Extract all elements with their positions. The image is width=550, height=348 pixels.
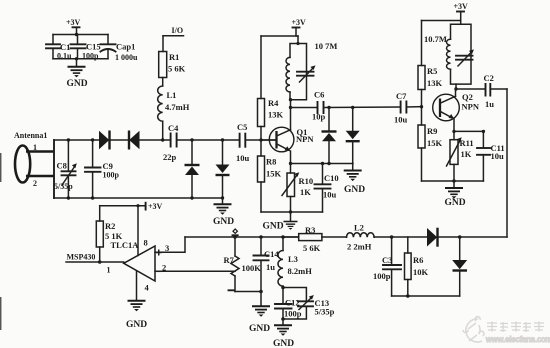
capacitor C15: [71, 35, 101, 61]
svg-text:R1: R1: [169, 52, 179, 62]
node C11 top: [482, 130, 485, 133]
wire collector to C2: [456, 88, 485, 90]
antenna Antenna1: [14, 131, 54, 188]
resistor R3: [283, 225, 322, 253]
wire bottom-right rail: [392, 295, 460, 297]
ground (RF bottom rail): [213, 198, 234, 227]
svg-text:1 000u: 1 000u: [115, 53, 138, 62]
svg-text:R10: R10: [299, 176, 314, 186]
wire +3V rail (Q2 stage): [422, 20, 461, 22]
wire R2 to output node: [99, 247, 101, 262]
svg-text:0.1u: 0.1u: [57, 52, 72, 61]
capacitor C9: [85, 138, 120, 199]
wire +3V rail (Q1 stage): [261, 35, 298, 37]
capacitor C8 (variable 5/35p): [54, 138, 77, 199]
wire R4 column top: [260, 36, 262, 99]
wire Q1 emitter column: [290, 151, 292, 173]
wire R1 to L1: [162, 78, 164, 87]
capacitor C5: [236, 122, 250, 163]
power +3V (cap bank): [66, 18, 81, 35]
op-amp U1 TLC1A: [111, 238, 170, 293]
resistor R7 (100K pot): [224, 237, 262, 292]
svg-text:Cap1: Cap1: [116, 42, 135, 52]
svg-text:R9: R9: [427, 126, 437, 136]
svg-text:C9: C9: [103, 161, 113, 171]
svg-text:8: 8: [144, 238, 148, 248]
power +3V (op-amp): [146, 202, 163, 211]
wire antenna vertical: [53, 140, 55, 198]
svg-text:10p: 10p: [312, 112, 326, 122]
wire MSP430 output: [66, 261, 124, 263]
node main/D3: [190, 138, 193, 141]
capacitor C6: [312, 90, 326, 122]
wire R5 column top: [421, 21, 423, 66]
wire cap-bank bottom rail: [53, 58, 108, 60]
resistor R5: [418, 66, 443, 90]
svg-text:GND: GND: [249, 324, 270, 334]
svg-text:R6: R6: [413, 255, 423, 265]
svg-text:R4: R4: [268, 98, 279, 108]
node main/D4: [221, 138, 224, 141]
svg-text:GND: GND: [273, 339, 294, 348]
svg-text:1K: 1K: [461, 149, 472, 159]
label minus: [229, 289, 235, 291]
svg-text:NPN: NPN: [296, 134, 314, 144]
svg-text:GND: GND: [344, 185, 365, 195]
svg-text:13K: 13K: [268, 110, 284, 120]
svg-text:R5: R5: [427, 66, 437, 76]
wire RF bottom rail: [54, 197, 223, 199]
node C3 tap: [390, 235, 394, 239]
ground (op-amp): [126, 301, 147, 330]
svg-text:1u: 1u: [485, 99, 494, 109]
node D8 top: [458, 235, 462, 239]
transistor Q2: [433, 89, 480, 121]
diode D1 (series, pointing right): [99, 131, 110, 150]
capacitor C7: [394, 91, 408, 125]
node pin8 rail: [136, 204, 139, 207]
node cap-bank bottom: [75, 57, 78, 60]
diode D3 (limiter, cathode up): [185, 140, 200, 198]
svg-text:100p: 100p: [82, 52, 99, 61]
wire tank to collector node: [455, 84, 457, 89]
svg-text:10u: 10u: [236, 153, 250, 163]
svg-text:C6: C6: [314, 90, 324, 100]
resistor R6: [405, 237, 429, 296]
transistor Q1: [261, 127, 314, 152]
wire R7 bottom to C14 bottom: [235, 291, 261, 293]
svg-text:GND: GND: [445, 198, 466, 208]
svg-text:10.7M: 10.7M: [424, 34, 447, 44]
svg-text:+3V: +3V: [292, 18, 307, 27]
svg-text:2 2mH: 2 2mH: [347, 242, 372, 252]
svg-text:+3V: +3V: [66, 18, 81, 27]
svg-text:1K: 1K: [300, 187, 311, 197]
wire D1-D2: [110, 139, 129, 141]
svg-text:4.7mH: 4.7mH: [165, 102, 190, 112]
svg-text:R11: R11: [460, 138, 474, 148]
wire C6 to C7: [324, 106, 401, 109]
svg-text:5/35p: 5/35p: [54, 182, 73, 191]
svg-text:15K: 15K: [427, 138, 443, 148]
svg-text:GND: GND: [67, 79, 88, 89]
svg-text:15K: 15K: [266, 169, 282, 179]
filter 10.7M (Q2 tank): [424, 24, 474, 84]
svg-text:C14: C14: [264, 249, 279, 259]
svg-text:C15: C15: [86, 42, 101, 52]
wire R5 to base node: [421, 90, 423, 126]
node Q1 collector / tank: [289, 98, 292, 101]
node L3 tap: [281, 235, 285, 239]
svg-text:100p: 100p: [103, 171, 120, 180]
node base divider: [259, 138, 262, 141]
capacitor Cap1 (polarized): [101, 35, 139, 63]
wire RF top rail: [54, 139, 100, 141]
diode D5 (limiter, cathode up): [322, 108, 337, 164]
node L1/main: [161, 138, 164, 141]
svg-text:L2: L2: [354, 223, 364, 233]
node D3 bottom: [190, 196, 193, 199]
svg-text:1u: 1u: [266, 262, 275, 272]
svg-text:TLC1A: TLC1A: [111, 240, 140, 250]
wire C2 to right edge: [491, 88, 507, 90]
wire Q2 emitter column: [453, 119, 455, 140]
watermark logo: [463, 317, 484, 342]
svg-text:R3: R3: [305, 225, 315, 235]
terminal pin 6 mark: [233, 229, 238, 235]
svg-text:10K: 10K: [413, 267, 429, 277]
svg-text:10u: 10u: [394, 115, 408, 125]
wire L2 to D7: [374, 236, 427, 238]
svg-text:C4: C4: [168, 123, 179, 133]
node L3 bottom: [281, 286, 285, 290]
svg-text:L1: L1: [167, 90, 177, 100]
node C10 top: [321, 162, 324, 165]
svg-text:C1: C1: [60, 42, 70, 52]
wire R10 to bottom rail: [290, 197, 292, 213]
ground (limiter): [344, 171, 366, 196]
capacitor C2: [484, 73, 495, 109]
node D6 top: [351, 106, 354, 109]
svg-text:+3V: +3V: [148, 202, 163, 211]
wire C4 to C5: [177, 139, 239, 141]
svg-text:100p: 100p: [373, 271, 391, 281]
svg-text:8.2mH: 8.2mH: [288, 266, 313, 276]
wire pin 3: [155, 237, 185, 252]
diode D8 (shunt, cathode down): [452, 237, 467, 296]
watermark text: [485, 322, 550, 345]
ground (C12/C13): [273, 319, 294, 348]
wire op-amp +3V rail: [100, 205, 146, 207]
resistor R11 (variable): [447, 137, 474, 166]
wire cap-bank top rail: [53, 34, 108, 36]
svg-text:L3: L3: [288, 254, 298, 264]
wire pin 8: [137, 206, 139, 256]
capacitor C14: [254, 237, 280, 292]
wire R11 to rail: [453, 164, 455, 181]
resistor R9: [418, 125, 443, 148]
wire audio line: [185, 236, 299, 238]
svg-text:22p: 22p: [163, 152, 177, 162]
svg-text:1: 1: [107, 266, 111, 275]
node emitter: [452, 130, 455, 133]
wire base node to R8: [260, 140, 262, 156]
node Q2 collector: [454, 87, 457, 90]
node output: [98, 260, 102, 264]
ground (Q2 stage): [445, 181, 466, 208]
filter 10.7M (Q1 tank): [286, 36, 337, 100]
node C14 tap: [259, 235, 263, 239]
terminal I/O: [163, 26, 184, 52]
node D4 bottom: [221, 196, 224, 199]
svg-text:MSP430: MSP430: [67, 253, 96, 262]
svg-text:3: 3: [165, 243, 169, 253]
svg-text:13K: 13K: [427, 78, 443, 88]
svg-text:100K: 100K: [242, 263, 262, 273]
wire D2 to C4: [140, 139, 171, 141]
svg-text:10u: 10u: [323, 190, 337, 200]
svg-text:+3V: +3V: [454, 2, 469, 11]
resistor R8: [258, 156, 282, 182]
svg-text:C3: C3: [382, 255, 392, 265]
resistor R10 (variable): [282, 172, 313, 197]
capacitor C1: [46, 35, 72, 61]
capacitor C3: [373, 237, 401, 296]
wire emitter to C11: [454, 130, 483, 132]
capacitor C10: [315, 164, 339, 213]
wire R3 to L2: [322, 236, 347, 238]
capacitor C11: [477, 131, 505, 181]
diode D7 (series, pointing right): [427, 228, 438, 247]
svg-text:GND: GND: [126, 320, 147, 330]
svg-text:10u: 10u: [491, 151, 505, 161]
svg-text:C5: C5: [237, 122, 247, 132]
power +3V (Q1 stage): [292, 18, 307, 36]
svg-text:Antenna1: Antenna1: [14, 131, 47, 140]
svg-text:10 7M: 10 7M: [315, 41, 338, 51]
wire L1 to main line: [162, 121, 164, 140]
svg-text:C8: C8: [57, 161, 67, 171]
svg-text:www.elecfans.com: www.elecfans.com: [485, 335, 550, 344]
ground (R7/C14): [249, 292, 270, 335]
node D5 bottom: [327, 162, 330, 165]
node Q2 base: [420, 105, 423, 108]
svg-text:1: 1: [33, 143, 37, 152]
capacitor C4: [163, 123, 179, 162]
wire R4 to base node: [260, 127, 262, 141]
wire C6 line: [291, 107, 318, 109]
wire C5 to Q1 base: [246, 139, 277, 141]
wire Q2 bottom rail: [422, 180, 484, 182]
wire D7 to right edge: [438, 236, 507, 238]
node C14 bottom: [259, 290, 263, 294]
wire pin 2: [155, 270, 235, 272]
wire R8 to bottom rail: [260, 182, 262, 212]
svg-text:R7: R7: [224, 255, 235, 265]
ground (cap bank): [67, 59, 88, 89]
wire right vertical: [506, 89, 508, 237]
svg-text:I/O: I/O: [172, 26, 184, 35]
svg-text:R2: R2: [105, 221, 115, 231]
node Q2 gnd: [452, 179, 455, 182]
node R7 tap: [233, 235, 237, 239]
wire C7 to Q2 base node: [407, 106, 422, 108]
node bottom rail gnd: [289, 210, 292, 213]
capacitor C13 (variable 5/35p): [298, 295, 335, 317]
wire R9 to bottom rail: [421, 148, 423, 181]
resistor R4: [258, 98, 284, 127]
inductor L3: [278, 237, 312, 288]
node cap-bank top: [75, 33, 78, 36]
power +3V (Q2 stage): [454, 2, 469, 24]
svg-text:GND: GND: [213, 217, 234, 227]
svg-text:5/35p: 5/35p: [315, 307, 335, 317]
svg-text:5 6K: 5 6K: [168, 64, 186, 74]
scan edge marks: [0, 153, 2, 330]
diode D2 (series, pointing left): [129, 131, 140, 150]
node emitter rail: [289, 162, 292, 165]
svg-text:C10: C10: [324, 173, 339, 183]
node R6 bottom: [406, 294, 410, 298]
wire pin 4: [136, 271, 138, 301]
svg-text:R8: R8: [266, 157, 276, 167]
inductor L2: [346, 223, 374, 252]
svg-text:2: 2: [33, 179, 37, 188]
diode D4 (limiter, cathode down): [216, 140, 230, 198]
resistor R1: [159, 52, 186, 78]
wire collector column: [290, 100, 292, 131]
svg-text:Q2: Q2: [462, 92, 473, 102]
svg-text:NPN: NPN: [462, 102, 480, 112]
wire Q1-stage bottom rail: [261, 211, 323, 213]
resistor R2: [96, 206, 122, 247]
capacitor C12: [275, 298, 302, 319]
diode D6 (limiter, cathode down): [346, 108, 360, 171]
node C12 bottom: [281, 317, 285, 321]
wire C12/C13 loop: [283, 288, 306, 320]
inductor L1: [158, 86, 190, 121]
svg-text:C2: C2: [484, 73, 494, 83]
node D5 top: [327, 106, 330, 109]
ground (Q1 stage): [263, 212, 298, 232]
svg-text:GND: GND: [263, 222, 284, 232]
node C6 branch: [289, 106, 292, 109]
wire emitter rail to diodes: [291, 163, 354, 165]
svg-text:5 6K: 5 6K: [303, 243, 321, 253]
svg-text:C7: C7: [396, 91, 407, 101]
